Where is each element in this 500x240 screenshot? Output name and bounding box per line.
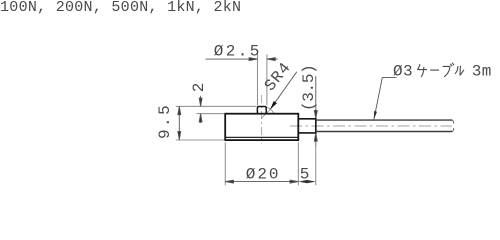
svg-text:100N, 200N, 500N, 1kN, 2kN: 100N, 200N, 500N, 1kN, 2kN <box>0 0 241 16</box>
katakana long vowel bar <box>431 69 439 71</box>
cable leader <box>374 78 397 120</box>
cable label D3 cable 3m <box>393 63 492 81</box>
svg-text:(3.5): (3.5) <box>300 65 318 112</box>
button (boss) on top <box>257 107 266 114</box>
SR4 leader <box>261 72 297 119</box>
body outline <box>225 114 298 140</box>
extension lines below body (D20 and 5) <box>225 142 316 185</box>
dimension (3.5) arrows <box>314 76 317 146</box>
svg-text:Ø2.5: Ø2.5 <box>214 43 262 61</box>
svg-text:2: 2 <box>190 83 208 93</box>
svg-text:Ø3: Ø3 <box>393 63 413 81</box>
extension line bottom of body (y=140) <box>176 139 224 141</box>
svg-text:Ø20: Ø20 <box>246 166 281 184</box>
extension line top of body (y=113.7) <box>197 113 225 115</box>
extension line top of button (y=106.3) <box>176 105 256 107</box>
dimension 9.5 line <box>178 106 181 139</box>
body inner bottom line <box>225 136 298 138</box>
svg-text:5: 5 <box>300 166 310 184</box>
SR4 sphere arc <box>267 107 275 113</box>
cable end break <box>452 120 453 131</box>
svg-text:3m: 3m <box>472 63 492 81</box>
katakana ru <box>455 66 464 75</box>
cable lines <box>316 120 453 131</box>
dimension D2.5 extension lines <box>257 55 267 106</box>
dimension 5 arrows (bowtie) <box>298 180 316 183</box>
dimension D2.5 lines + arrows <box>206 58 278 61</box>
dimension 2 line + arrows <box>199 96 202 123</box>
step (cable gland) <box>298 119 316 133</box>
dimension D20 line + arrows <box>225 180 298 183</box>
svg-text:9.5: 9.5 <box>156 103 174 139</box>
katakana ke <box>418 65 427 77</box>
horizontal centerline <box>290 125 452 127</box>
katakana bu <box>443 63 454 77</box>
vertical centerline <box>261 95 263 144</box>
